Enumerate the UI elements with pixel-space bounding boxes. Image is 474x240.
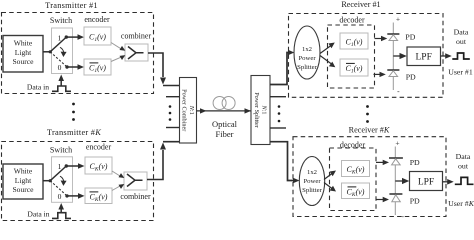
svg-text:C1(v): C1(v): [89, 63, 106, 74]
svg-text:Splitter: Splitter: [302, 187, 322, 194]
decoder label RX1: [339, 16, 365, 25]
encoder C1 box: [84, 27, 111, 45]
decoder dashed box RX1: [328, 25, 375, 88]
decoder C1 box RX1: [340, 33, 368, 49]
switch SK contact 0 label: [58, 192, 62, 201]
switch S1 toggle arc arrow: [60, 47, 67, 57]
vertical dots between receivers: [366, 105, 369, 123]
switch SK contact 0 node: [65, 194, 68, 197]
switch S1 contact 1 node: [65, 35, 68, 38]
svg-text:out: out: [458, 161, 469, 170]
switch S1 pivot node: [49, 50, 52, 53]
svg-text:PD: PD: [410, 158, 420, 167]
decoder C1bar box RX1: [340, 59, 368, 76]
combiner Y symbol TX1: [128, 47, 144, 60]
PD2 label RXK: [410, 196, 420, 205]
switch label TX K: [50, 145, 72, 154]
user #K label: [448, 199, 474, 208]
switch SK toggle arc arrow: [60, 176, 67, 186]
svg-text:1x2: 1x2: [307, 169, 317, 176]
svg-text:User #1: User #1: [448, 68, 473, 77]
1x2 power splitter ellipse RXK: [299, 157, 324, 206]
transmitter #K dashed box: [2, 142, 154, 221]
svg-text:CK(v): CK(v): [347, 187, 365, 198]
svg-text:encoder: encoder: [86, 142, 112, 151]
svg-text:Data in: Data in: [27, 209, 49, 218]
photodiode PD1 RXK: [389, 158, 403, 165]
data out label RXK: [456, 152, 471, 170]
decoder label RXK: [340, 140, 366, 149]
decoder CKbar box RXK: [342, 183, 370, 199]
wire SK contact1 to encoder CK with arrow: [66, 163, 84, 169]
wire SK contact0 to encoder CKbar with arrow: [67, 193, 85, 199]
switch S1 contact 0 label: [58, 63, 62, 72]
svg-text:Power: Power: [298, 55, 316, 62]
decoder CK box RXK: [342, 161, 370, 177]
LPF box RXK: [410, 172, 443, 191]
svg-text:User #K: User #K: [448, 199, 474, 208]
svg-text:PD: PD: [410, 196, 420, 205]
encoder CK box: [85, 157, 112, 174]
user #1 label: [448, 68, 473, 77]
svg-text:+: +: [396, 15, 400, 24]
PD rail RXK: [394, 147, 396, 216]
svg-text:C1(v): C1(v): [346, 64, 363, 75]
svg-text:White: White: [14, 167, 33, 176]
svg-text:Transmitter #1: Transmitter #1: [45, 1, 98, 10]
transmitter #K label: [47, 128, 101, 137]
svg-text:1x2: 1x2: [302, 46, 312, 53]
switch SK contact 1 node: [65, 164, 68, 167]
svg-text:Light: Light: [15, 176, 32, 185]
svg-text:1: 1: [58, 162, 62, 171]
switch SK dashed arm to contact 0: [50, 181, 67, 196]
LPF output arrow RXK: [443, 179, 454, 185]
svg-text:Data: Data: [454, 28, 469, 37]
combiner box TX K: [124, 172, 147, 190]
data arrow into switch SK: [58, 203, 64, 213]
photodiode PD2 RXK: [389, 194, 402, 202]
power splitter output dots: [278, 105, 281, 122]
svg-text:Power: Power: [303, 178, 321, 185]
svg-text:Receiver #K: Receiver #K: [349, 125, 390, 134]
switch S1 arm to contact 1: [50, 37, 66, 52]
LPF output arrow RX1: [441, 53, 452, 59]
svg-text:out: out: [456, 37, 467, 46]
svg-text:N:1: N:1: [188, 105, 195, 115]
switch SK contact 1 label: [58, 162, 62, 171]
svg-text:combiner: combiner: [121, 32, 152, 41]
svg-text:0: 0: [58, 192, 62, 201]
svg-text:decoder: decoder: [339, 16, 365, 25]
data out label RX1: [454, 28, 469, 46]
svg-text:CK(v): CK(v): [347, 165, 365, 176]
receiver #K dashed box: [293, 137, 446, 217]
arrow decoder CKbar to PD2 RXK: [376, 197, 389, 202]
encoder label TX K: [86, 142, 112, 151]
wire splitter to RXK ellipse: [270, 142, 300, 184]
wire WLS to switch pivot: [43, 51, 50, 53]
data arrow into switch S1: [58, 75, 64, 87]
svg-text:Source: Source: [12, 185, 34, 194]
combiner box TX1: [125, 44, 148, 61]
svg-text:Switch: Switch: [50, 145, 72, 154]
power combiner input stub upper: [166, 96, 180, 98]
receiver #1 dashed box: [289, 14, 444, 98]
power combiner input dots: [169, 105, 172, 121]
wire CK to combiner with arrow: [112, 171, 124, 178]
svg-text:+: +: [395, 139, 399, 148]
PD supply minus RX1: [397, 86, 400, 95]
wire C1bar to combiner with arrow: [111, 55, 125, 61]
svg-text:Data: Data: [456, 152, 471, 161]
combiner label TX K: [120, 192, 151, 201]
svg-text:Receiver #1: Receiver #1: [341, 0, 380, 9]
power combiner input stub lower: [166, 127, 180, 129]
svg-text:CK(v): CK(v): [90, 162, 108, 173]
junction arrow to LPF RX1: [393, 53, 407, 59]
switch S1 contact 0 node: [65, 65, 68, 68]
PD1 label RXK: [410, 158, 420, 167]
wire WLS K to switch pivot: [43, 180, 50, 182]
PD supply minus RXK: [401, 211, 404, 220]
arrow decoder C1bar to PD2: [374, 72, 386, 77]
svg-text:Switch: Switch: [50, 16, 72, 25]
RX1 fan-out arrow lower: [320, 56, 335, 68]
data in label TX1: [27, 83, 49, 92]
RXK fan-out arrow upper: [324, 171, 336, 180]
RXK fan-out arrow lower: [324, 183, 336, 192]
svg-text:Data in: Data in: [27, 83, 49, 92]
photodiode PD2 RX1: [387, 70, 399, 77]
svg-text:Light: Light: [15, 48, 32, 57]
1x2 power splitter ellipse RX1: [294, 26, 320, 79]
svg-text:combiner: combiner: [120, 192, 151, 201]
power combiner box: [180, 78, 197, 144]
wire C1 to combiner with arrow: [111, 43, 125, 51]
combiner Y symbol TX K: [127, 174, 143, 187]
svg-text:LPF: LPF: [416, 53, 432, 63]
RX1 fan-out arrow upper: [320, 43, 335, 54]
PD1 label RX1: [405, 33, 415, 42]
receiver #1 label: [341, 0, 380, 9]
PD supply plus RX1: [396, 15, 400, 24]
switch SK pivot node: [49, 179, 52, 182]
svg-text:N:1: N:1: [261, 105, 268, 115]
wire contact1 to encoder C1 with arrow: [66, 34, 84, 40]
power splitter output stub lower: [270, 127, 286, 129]
svg-text:Power Combiner: Power Combiner: [181, 89, 188, 131]
fiber link combiner to splitter: [197, 108, 252, 113]
svg-text:PD: PD: [405, 33, 415, 42]
optical fiber label: [212, 119, 238, 139]
switch SK box: [52, 157, 73, 203]
svg-text:White: White: [14, 39, 33, 48]
wire splitter to RX1 ellipse: [270, 50, 294, 85]
data in pulse TX K: [52, 213, 71, 219]
receiver #K label: [349, 125, 390, 134]
wire TX K combiner to power combiner: [147, 142, 180, 180]
user #K output pulse: [455, 177, 474, 184]
power splitter box: [251, 76, 270, 145]
PD supply plus RXK: [395, 139, 399, 148]
svg-text:Fiber: Fiber: [216, 129, 234, 139]
junction arrow to LPF RXK: [395, 178, 409, 184]
photodiode PD1 RX1: [387, 34, 399, 41]
data in label TX K: [27, 209, 49, 218]
svg-text:C1(v): C1(v): [346, 37, 363, 48]
optical fiber coil: [213, 97, 235, 110]
data in pulse TX1: [52, 86, 71, 91]
power splitter output stub upper: [270, 96, 286, 98]
PD2 label RX1: [406, 72, 416, 81]
svg-text:LPF: LPF: [418, 178, 434, 188]
switch S1 dashed arm to contact 0: [50, 52, 67, 67]
white light source TX K: [3, 164, 43, 199]
LPF box RX1: [407, 47, 441, 66]
transmitter #1 label: [45, 1, 98, 10]
encoder CKbar box: [85, 188, 112, 204]
user #1 output pulse: [452, 53, 470, 59]
vertical dots between transmitters: [72, 103, 75, 121]
decoder dashed box RXK: [330, 148, 377, 211]
transmitter #1 dashed box: [2, 13, 154, 94]
wire TX1 combiner to power combiner: [148, 53, 180, 86]
encoder C1bar box: [84, 59, 111, 75]
PD rail RX1: [392, 23, 394, 91]
arrow decoder CK to PD1 RXK: [376, 160, 389, 165]
switch S1 contact 1 label: [58, 33, 62, 42]
svg-text:Optical: Optical: [212, 119, 238, 129]
svg-text:CK(v): CK(v): [90, 192, 108, 203]
switch S1 box: [52, 28, 73, 74]
svg-text:PD: PD: [406, 72, 416, 81]
svg-text:1: 1: [58, 33, 62, 42]
svg-text:Splitter: Splitter: [297, 64, 317, 71]
switch label: [50, 16, 72, 25]
switch SK arm to contact 1: [50, 166, 66, 181]
svg-text:Source: Source: [12, 57, 34, 66]
combiner label TX1: [121, 32, 152, 41]
svg-text:Transmitter #K: Transmitter #K: [47, 128, 101, 137]
wire contact0 to encoder C1bar with arrow: [67, 64, 84, 70]
svg-text:Power Splitter: Power Splitter: [253, 92, 260, 128]
wire CKbar to combiner with arrow: [112, 184, 124, 191]
svg-text:0: 0: [58, 63, 62, 72]
svg-text:encoder: encoder: [84, 15, 110, 24]
arrow decoder C1 to PD1: [375, 36, 388, 41]
encoder label TX1: [84, 15, 110, 24]
svg-text:C1(v): C1(v): [89, 32, 106, 43]
white light source: [3, 36, 43, 73]
